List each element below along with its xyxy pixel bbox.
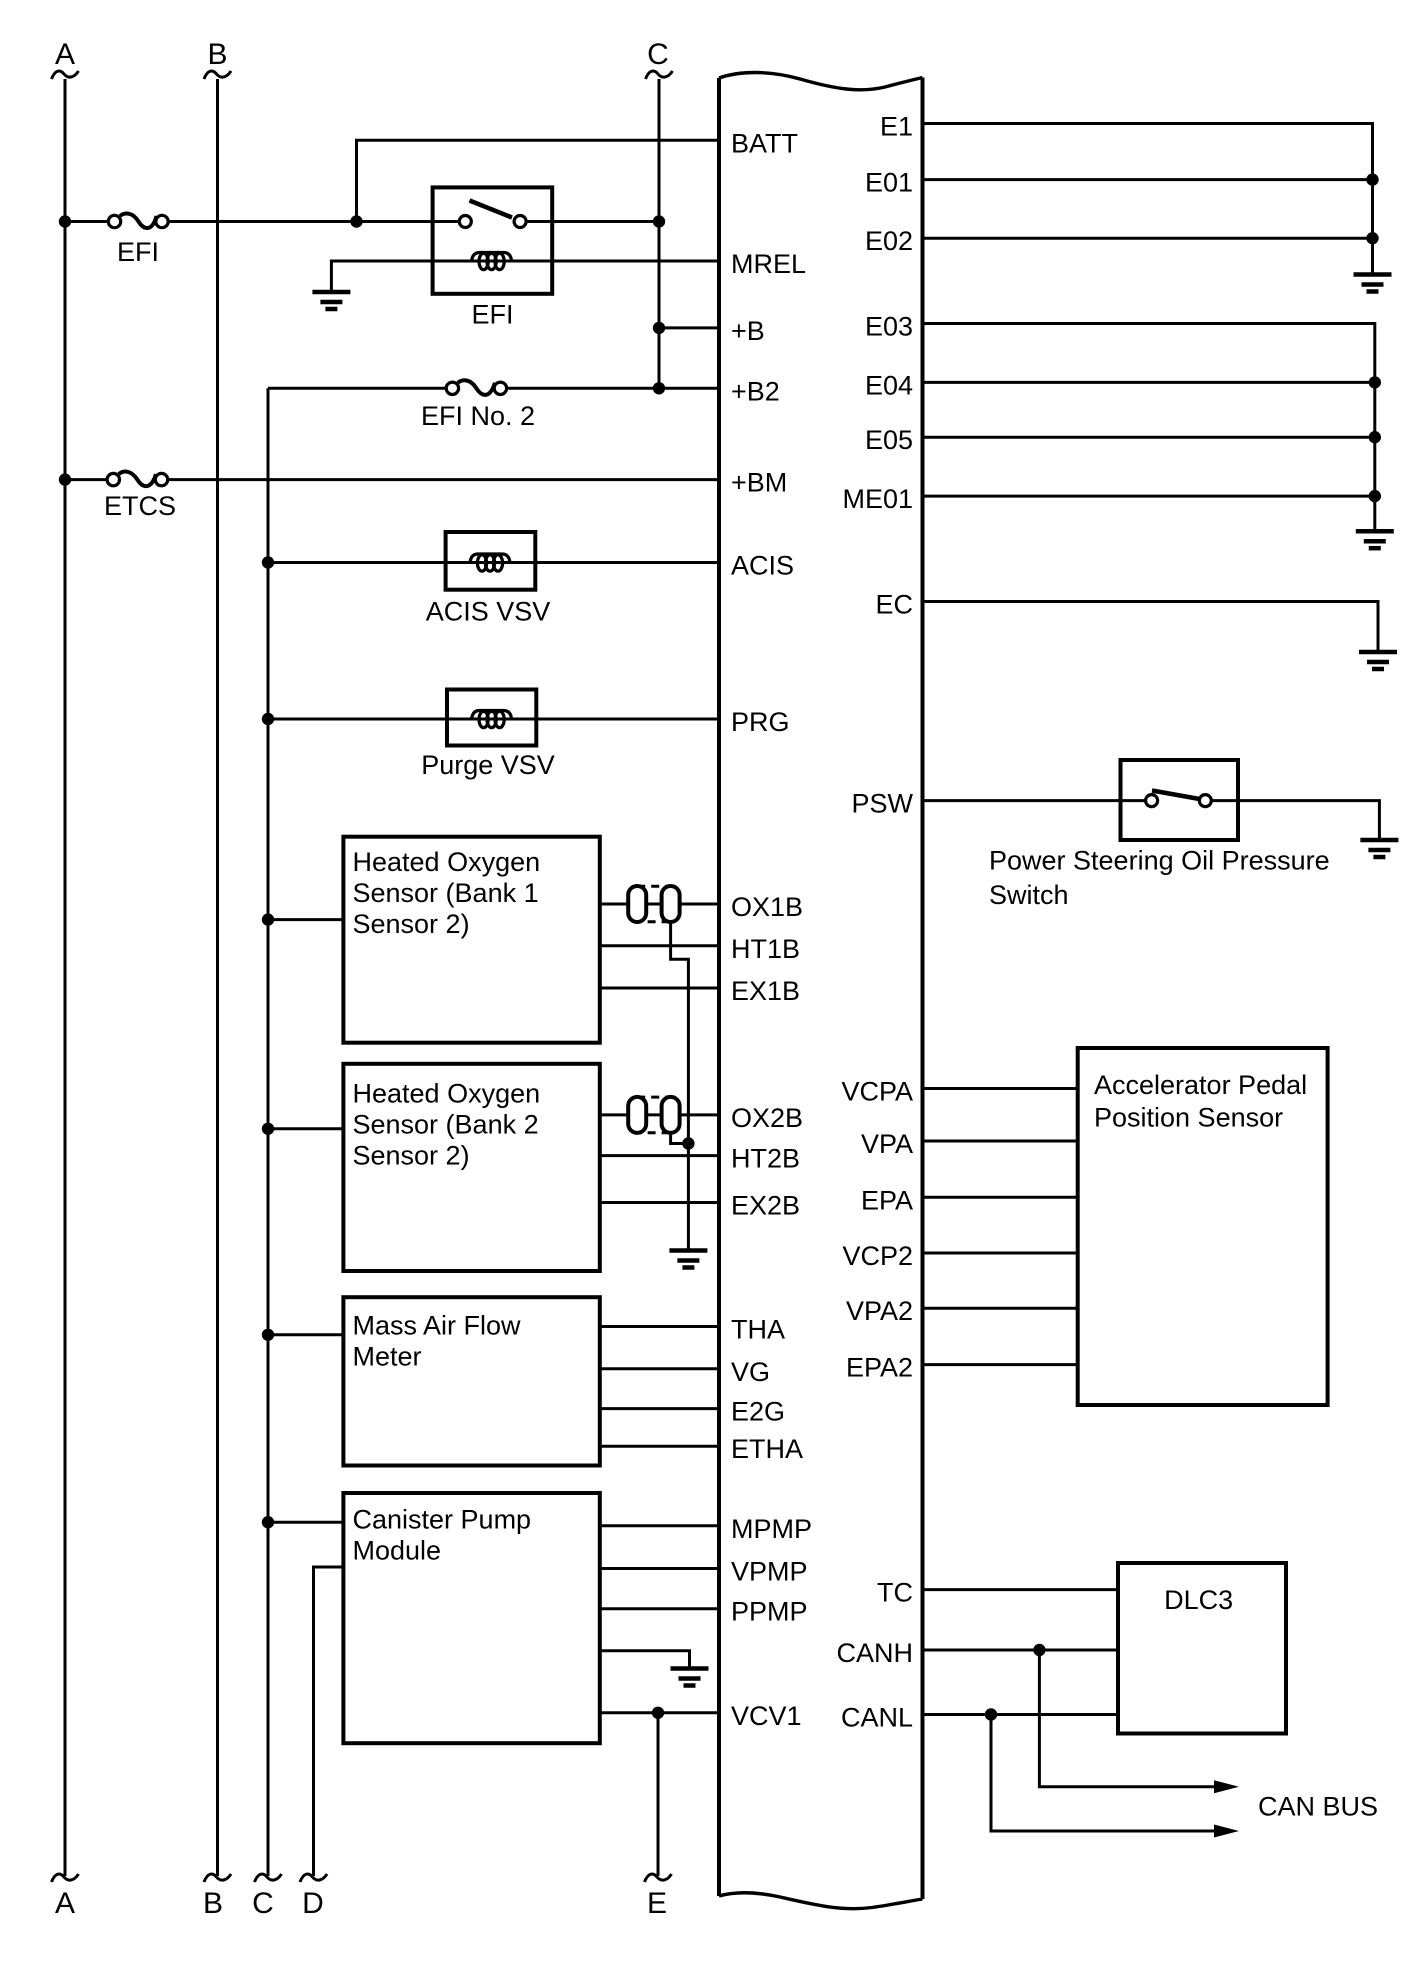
ground EC — [1359, 652, 1397, 669]
svg-text:VCPA: VCPA — [841, 1077, 913, 1107]
svg-text:HT1B: HT1B — [731, 934, 800, 964]
svg-text:EPA: EPA — [861, 1185, 913, 1215]
ground E1/E01/E02 — [1354, 275, 1392, 292]
junction dot E02 — [1366, 232, 1378, 244]
wire VCV1 — [600, 1711, 719, 1714]
svg-text:THA: THA — [731, 1315, 785, 1345]
svg-text:DLC3: DLC3 — [1164, 1585, 1233, 1615]
net line C top segment — [658, 79, 661, 388]
svg-text:+BM: +BM — [731, 468, 787, 498]
svg-text:Position Sensor: Position Sensor — [1094, 1103, 1283, 1133]
shield wire OX2B — [671, 1132, 689, 1144]
svg-text:E02: E02 — [865, 226, 913, 256]
wire to HOS1 — [268, 918, 343, 921]
svg-text:BATT: BATT — [731, 128, 798, 158]
wire EFI fuse row (A to relay) — [65, 220, 110, 223]
svg-text:E: E — [647, 1887, 667, 1920]
junction dot E01 — [1366, 173, 1378, 185]
net line B (vertical bus) — [216, 79, 219, 1876]
DLC3 box — [1118, 1563, 1286, 1734]
svg-text:Sensor (Bank 2: Sensor (Bank 2 — [353, 1110, 539, 1140]
wire CAN bus upper arrow — [1039, 1650, 1216, 1787]
Purge VSV coil — [472, 711, 512, 728]
junction dot MAF — [262, 1329, 274, 1341]
wire ME01 — [923, 495, 1375, 498]
ECU top torn edge — [719, 72, 923, 89]
svg-text:MPMP: MPMP — [731, 1514, 812, 1544]
svg-text:E1: E1 — [880, 112, 913, 142]
junction dot ME01 — [1369, 490, 1381, 502]
relay coil — [472, 253, 512, 270]
net line A (vertical bus) — [64, 79, 67, 1876]
svg-text:Sensor 2): Sensor 2) — [353, 909, 470, 939]
wire to HOS2 — [268, 1127, 343, 1130]
connector OX1B pin right — [662, 886, 680, 922]
wire ETHA — [600, 1445, 719, 1448]
wire E1 — [923, 124, 1373, 275]
ECU left edge — [717, 78, 721, 1896]
PSW switch contact left — [1146, 795, 1158, 807]
junction dot A/ETCS — [59, 473, 71, 485]
svg-text:CAN BUS: CAN BUS — [1258, 1792, 1378, 1822]
break symbol B bottom — [204, 1874, 231, 1882]
junction dot CANL — [985, 1708, 997, 1720]
net line C bottom segment (from +B2 wire) — [267, 388, 270, 1876]
svg-text:Power Steering Oil Pressure: Power Steering Oil Pressure — [989, 846, 1330, 876]
svg-text:EFI: EFI — [471, 300, 513, 330]
wire to MAF — [268, 1333, 343, 1336]
svg-text:+B2: +B2 — [731, 376, 780, 406]
fuse EFI — [108, 213, 168, 228]
svg-text:ME01: ME01 — [842, 484, 913, 514]
junction dot CANH — [1033, 1644, 1045, 1656]
svg-text:VPA: VPA — [861, 1129, 913, 1159]
svg-text:E04: E04 — [865, 370, 913, 400]
wire to Canister — [268, 1521, 343, 1524]
wire CAN bus lower arrow — [991, 1715, 1216, 1832]
svg-text:C: C — [252, 1887, 274, 1920]
wire E05 — [923, 436, 1375, 439]
wire +B — [659, 326, 719, 329]
svg-text:B: B — [207, 38, 227, 71]
svg-text:OX1B: OX1B — [731, 892, 803, 922]
break symbol B top — [204, 71, 231, 79]
svg-text:Heated Oxygen: Heated Oxygen — [353, 847, 541, 877]
svg-text:C: C — [647, 38, 669, 71]
wire E03 — [923, 324, 1375, 532]
svg-text:PRG: PRG — [731, 707, 790, 737]
svg-text:EX1B: EX1B — [731, 976, 800, 1006]
junction dot PRG — [262, 713, 274, 725]
svg-text:EC: EC — [875, 590, 913, 620]
svg-text:PPMP: PPMP — [731, 1597, 808, 1627]
connector OX2B pin left — [628, 1097, 646, 1133]
wire PRG — [268, 718, 719, 721]
junction dot ACIS — [262, 556, 274, 568]
wire EC — [923, 602, 1379, 653]
svg-text:B: B — [203, 1887, 223, 1920]
wire CANH — [923, 1649, 1119, 1652]
wire EX2B — [600, 1201, 719, 1204]
wire ACIS — [268, 561, 719, 564]
Power Steering Oil Pressure Switch box — [1121, 760, 1239, 840]
arrowhead CAN upper — [1214, 1780, 1239, 1793]
wire CANL — [923, 1713, 1119, 1716]
Heated Oxygen Sensor (Bank 1 Sensor 2) box — [343, 837, 599, 1043]
wire EPA — [923, 1196, 1078, 1199]
svg-text:Mass Air Flow: Mass Air Flow — [353, 1311, 522, 1341]
svg-text:Module: Module — [353, 1536, 442, 1566]
svg-text:EFI No. 2: EFI No. 2 — [421, 401, 535, 431]
svg-text:OX2B: OX2B — [731, 1103, 803, 1133]
svg-text:A: A — [55, 1887, 75, 1920]
wire PSW right — [1211, 801, 1379, 840]
relay switch contact left — [459, 216, 471, 228]
shield wire OX1B — [671, 921, 689, 1251]
break symbol C top — [646, 71, 673, 79]
wire VPMP — [600, 1567, 719, 1570]
svg-text:Sensor (Bank 1: Sensor (Bank 1 — [353, 878, 539, 908]
junction dot HOS2 — [262, 1123, 274, 1135]
wire THA — [600, 1325, 719, 1328]
wire VG — [600, 1367, 719, 1370]
Heated Oxygen Sensor (Bank 2 Sensor 2) box — [343, 1064, 599, 1271]
connector OX2B pin right — [662, 1097, 680, 1133]
junction dot +B2/C — [653, 382, 665, 394]
svg-text:Heated Oxygen: Heated Oxygen — [353, 1079, 541, 1109]
break symbol A top — [52, 71, 79, 79]
svg-text:EFI: EFI — [117, 237, 159, 267]
ACIS VSV coil — [470, 554, 510, 571]
wire VPA — [923, 1140, 1078, 1143]
svg-text:VCP2: VCP2 — [842, 1241, 913, 1271]
svg-text:E01: E01 — [865, 168, 913, 198]
wire VCPA — [923, 1087, 1078, 1090]
net line D — [314, 1567, 344, 1876]
fuse EFI No. 2 — [446, 380, 506, 395]
svg-text:ACIS: ACIS — [731, 551, 794, 581]
wire EPA2 — [923, 1363, 1078, 1366]
svg-text:Purge VSV: Purge VSV — [421, 750, 555, 780]
PSW switch blade — [1152, 791, 1200, 800]
junction dot E05 — [1369, 431, 1381, 443]
relay EFI box — [433, 187, 553, 293]
wire OX2B — [600, 1113, 719, 1116]
junction dot E04 — [1369, 376, 1381, 388]
fuse ETCS — [107, 472, 168, 487]
wire OX1B — [600, 903, 719, 906]
svg-text:Canister Pump: Canister Pump — [353, 1505, 532, 1535]
ECU right edge — [921, 78, 925, 1900]
svg-text:TC: TC — [877, 1578, 913, 1608]
ground canister — [671, 1669, 709, 1686]
connector OX1B dashed shield box — [637, 886, 670, 922]
svg-text:EPA2: EPA2 — [846, 1353, 913, 1383]
wire VCP2 — [923, 1252, 1078, 1255]
PSW switch contact right — [1199, 795, 1211, 807]
svg-text:HT2B: HT2B — [731, 1144, 800, 1174]
wire canister ground — [600, 1651, 690, 1669]
wire PPMP — [600, 1607, 719, 1610]
ECU bottom torn edge — [719, 1893, 923, 1909]
svg-text:Accelerator Pedal: Accelerator Pedal — [1094, 1070, 1307, 1100]
svg-text:+B: +B — [731, 316, 765, 346]
svg-text:E2G: E2G — [731, 1397, 785, 1427]
svg-text:D: D — [302, 1887, 324, 1920]
break symbol D bottom — [300, 1874, 327, 1882]
svg-text:Sensor 2): Sensor 2) — [353, 1141, 470, 1171]
junction dot VCV1/E — [652, 1707, 664, 1719]
svg-text:MREL: MREL — [731, 249, 806, 279]
relay switch blade — [470, 201, 513, 218]
svg-text:EX2B: EX2B — [731, 1191, 800, 1221]
wire PSW left — [923, 799, 1147, 802]
ground E03/E04/E05/ME01 — [1356, 531, 1394, 548]
Mass Air Flow Meter box — [343, 1297, 599, 1465]
svg-text:VG: VG — [731, 1357, 770, 1387]
Accelerator Pedal Position Sensor box — [1078, 1048, 1328, 1405]
wire E01 — [923, 178, 1373, 181]
svg-text:CANH: CANH — [836, 1638, 913, 1668]
wire BATT — [357, 140, 720, 221]
junction dot BATT drop — [350, 215, 362, 227]
relay switch contact right — [514, 216, 526, 228]
break symbol E bottom — [645, 1874, 672, 1882]
wire E2G — [600, 1407, 719, 1410]
wire HT1B — [600, 944, 719, 947]
wire EX1B — [600, 987, 719, 990]
wire MPMP — [600, 1524, 719, 1527]
wire TC — [923, 1588, 1119, 1591]
break symbol A bottom — [52, 1874, 79, 1882]
wire HT2B — [600, 1154, 719, 1157]
junction dot +B — [653, 322, 665, 334]
arrowhead CAN lower — [1214, 1825, 1239, 1838]
ground shield — [669, 1251, 707, 1268]
junction dot shield — [682, 1137, 694, 1149]
ground PSW — [1360, 840, 1398, 857]
ACIS VSV box — [446, 532, 536, 590]
junction dot C/EFI row — [653, 215, 665, 227]
wire MREL (relay coil to ECU) — [331, 261, 719, 292]
svg-text:Meter: Meter — [353, 1342, 422, 1372]
Purge VSV box — [447, 690, 536, 746]
wire +B2 — [268, 387, 446, 390]
svg-text:VPMP: VPMP — [731, 1557, 808, 1587]
svg-text:ETCS: ETCS — [104, 491, 176, 521]
junction dot HOS1 — [262, 913, 274, 925]
wire relay output to C — [526, 220, 659, 223]
junction dot Canister — [262, 1516, 274, 1528]
net line E — [657, 1713, 660, 1876]
svg-text:A: A — [55, 38, 75, 71]
svg-text:E05: E05 — [865, 425, 913, 455]
svg-text:Switch: Switch — [989, 880, 1069, 910]
svg-text:ETHA: ETHA — [731, 1434, 803, 1464]
svg-text:E03: E03 — [865, 312, 913, 342]
wire VPA2 — [923, 1307, 1078, 1310]
junction dot A/EFI row — [59, 215, 71, 227]
wire +BM (ETCS row) — [65, 478, 109, 481]
connector OX2B dashed shield box — [637, 1097, 670, 1133]
break symbol C bottom — [255, 1874, 282, 1882]
wire E02 — [923, 237, 1373, 240]
svg-text:PSW: PSW — [851, 789, 913, 819]
svg-text:VPA2: VPA2 — [846, 1296, 913, 1326]
ground relay coil — [312, 292, 350, 309]
svg-text:CANL: CANL — [841, 1703, 913, 1733]
svg-text:ACIS VSV: ACIS VSV — [426, 597, 551, 627]
Canister Pump Module box — [343, 1493, 599, 1743]
wire E04 — [923, 381, 1375, 384]
connector OX1B pin left — [628, 886, 646, 922]
svg-text:VCV1: VCV1 — [731, 1701, 802, 1731]
